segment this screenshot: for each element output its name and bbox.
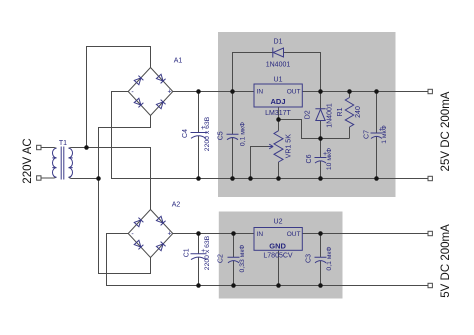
junction dot secondary bottom (96, 176, 101, 181)
wire AC1 net: A1 top to secondary top (87, 47, 151, 148)
svg-text:1N4001: 1N4001 (266, 62, 291, 69)
potentiometer VR1 (274, 131, 283, 162)
bridge A2 diode bottom-right (156, 242, 165, 251)
svg-text:1 мкФ: 1 мкФ (381, 125, 388, 143)
svg-text:T1: T1 (59, 140, 67, 147)
terminal 5V minus (428, 283, 432, 287)
bridge A1 diode bottom-left (134, 98, 143, 107)
svg-text:D2: D2 (305, 110, 312, 119)
svg-text:IN: IN (257, 89, 264, 96)
terminal 25V minus (428, 176, 432, 180)
junction dots lower bottom rail (196, 283, 323, 288)
svg-text:+: + (167, 230, 171, 237)
bridge A2 diode top-left (134, 218, 143, 227)
wire C2 leads (233, 234, 235, 286)
capacitor C4 (191, 133, 207, 139)
svg-text:LM317T: LM317T (265, 110, 291, 117)
wire AC2 net: A1 bottom to A2 bottom (99, 116, 151, 274)
svg-text:C3: C3 (306, 254, 313, 263)
wire C4 leads (198, 92, 200, 179)
junction dots lower rail (196, 231, 323, 236)
svg-text:VR1 5K: VR1 5K (286, 134, 293, 158)
terminal primary bottom (37, 176, 41, 180)
svg-text:A1: A1 (174, 58, 183, 65)
svg-text:-: - (131, 89, 134, 96)
capacitor C2 (228, 257, 240, 263)
wire C7 leads (376, 92, 378, 179)
svg-text:5V DC 200mA: 5V DC 200mA (440, 224, 452, 298)
svg-text:IN: IN (257, 231, 264, 238)
svg-text:U2: U2 (274, 219, 283, 226)
svg-text:L7805CV: L7805CV (263, 252, 293, 259)
svg-text:OUT: OUT (287, 89, 301, 96)
svg-text:GND: GND (269, 241, 286, 250)
svg-text:240: 240 (355, 106, 362, 118)
wire U1 OUT rail (302, 91, 428, 93)
diode D2 (315, 109, 325, 121)
svg-text:U1: U1 (274, 77, 283, 84)
svg-text:C1: C1 (183, 248, 190, 257)
junction dot secondary top (84, 145, 89, 150)
wire C5 leads (232, 92, 234, 179)
wire U2 OUT rail (302, 233, 428, 235)
wire R1 leads (349, 92, 351, 139)
wire A1 plus to U1 IN (173, 91, 254, 93)
capacitor C7 (371, 133, 383, 139)
diode D1 (273, 48, 284, 58)
capacitor C3 (315, 257, 327, 263)
regulator U2 box (254, 228, 302, 251)
regulator shaded block upper (218, 32, 396, 197)
capacitor C1 (191, 254, 207, 260)
svg-text:0,33 мкФ: 0,33 мкФ (239, 245, 246, 273)
junction dots ADJ net (276, 117, 323, 141)
svg-text:25V DC 200mA: 25V DC 200mA (440, 91, 452, 171)
svg-text:C6: C6 (306, 154, 313, 163)
wire ADJ net (279, 120, 350, 139)
bridge A1 diode top-right (156, 74, 165, 83)
svg-text:2200 x 63B: 2200 x 63B (204, 235, 211, 270)
terminal 5V plus (428, 231, 432, 235)
wire VR1 bottom lead (278, 162, 280, 179)
junction dots upper rail (196, 89, 379, 94)
capacitor C5 (227, 134, 239, 140)
bridge A2 diode bottom-left (134, 240, 143, 249)
wire A1 minus to upper bottom rail (112, 92, 429, 179)
svg-text:+: + (167, 88, 171, 95)
svg-text:0,1 мкФ: 0,1 мкФ (240, 122, 247, 146)
transformer T1 (52, 147, 72, 180)
svg-text:C7: C7 (364, 130, 371, 139)
wire secondary leads (69, 148, 72, 179)
wire VR1 wiper to rail (251, 147, 269, 179)
svg-text:2200 x 63B: 2200 x 63B (204, 116, 211, 151)
bridge A2 outline (128, 210, 173, 258)
bridge A1 diode bottom-right (156, 100, 165, 109)
wire secondary bottom lead (71, 178, 99, 180)
svg-text:C4: C4 (182, 129, 189, 138)
regulator U1 box (254, 84, 302, 107)
svg-text:C5: C5 (217, 131, 224, 140)
wire D2 leads (320, 92, 322, 139)
wire primary leads (41, 148, 56, 179)
svg-text:220V AC: 220V AC (22, 138, 34, 183)
svg-text:-: - (131, 231, 134, 238)
wire C1 leads (198, 234, 200, 286)
terminal primary top (37, 145, 41, 149)
svg-text:0,1 мкФ: 0,1 мкФ (326, 246, 333, 270)
svg-text:R1: R1 (337, 107, 344, 116)
wire ADJ pin to VR1 top (278, 107, 280, 131)
svg-text:D1: D1 (274, 39, 283, 46)
capacitor C6 (315, 158, 327, 164)
bridge A2 diode top-right (156, 216, 165, 225)
wire D1 branch right (284, 53, 321, 92)
svg-text:1N4001: 1N4001 (327, 103, 334, 128)
terminal 25V plus (428, 89, 432, 93)
bridge A1 outline (128, 68, 173, 116)
resistor R1 (345, 98, 353, 128)
wire D1 branch left (233, 53, 273, 92)
regulator shaded block lower (219, 212, 343, 299)
svg-text:ADJ: ADJ (270, 97, 285, 106)
svg-text:OUT: OUT (287, 231, 301, 238)
svg-text:C2: C2 (217, 254, 224, 263)
wire U2 GND pin (278, 250, 280, 285)
wire C3 leads (320, 234, 322, 286)
svg-text:A2: A2 (172, 202, 181, 209)
wire A2 minus to lower bottom rail (107, 234, 429, 286)
wire A2 plus to U2 IN (173, 233, 254, 235)
wire C6 leads (320, 139, 322, 179)
wire secondary top lead to A2 top (71, 148, 151, 210)
bridge A1 diode top-left (134, 76, 143, 85)
VR1 wiper arrow (269, 144, 274, 149)
svg-text:10 мкФ: 10 мкФ (326, 148, 333, 170)
junction dots upper bottom rail (196, 176, 379, 181)
